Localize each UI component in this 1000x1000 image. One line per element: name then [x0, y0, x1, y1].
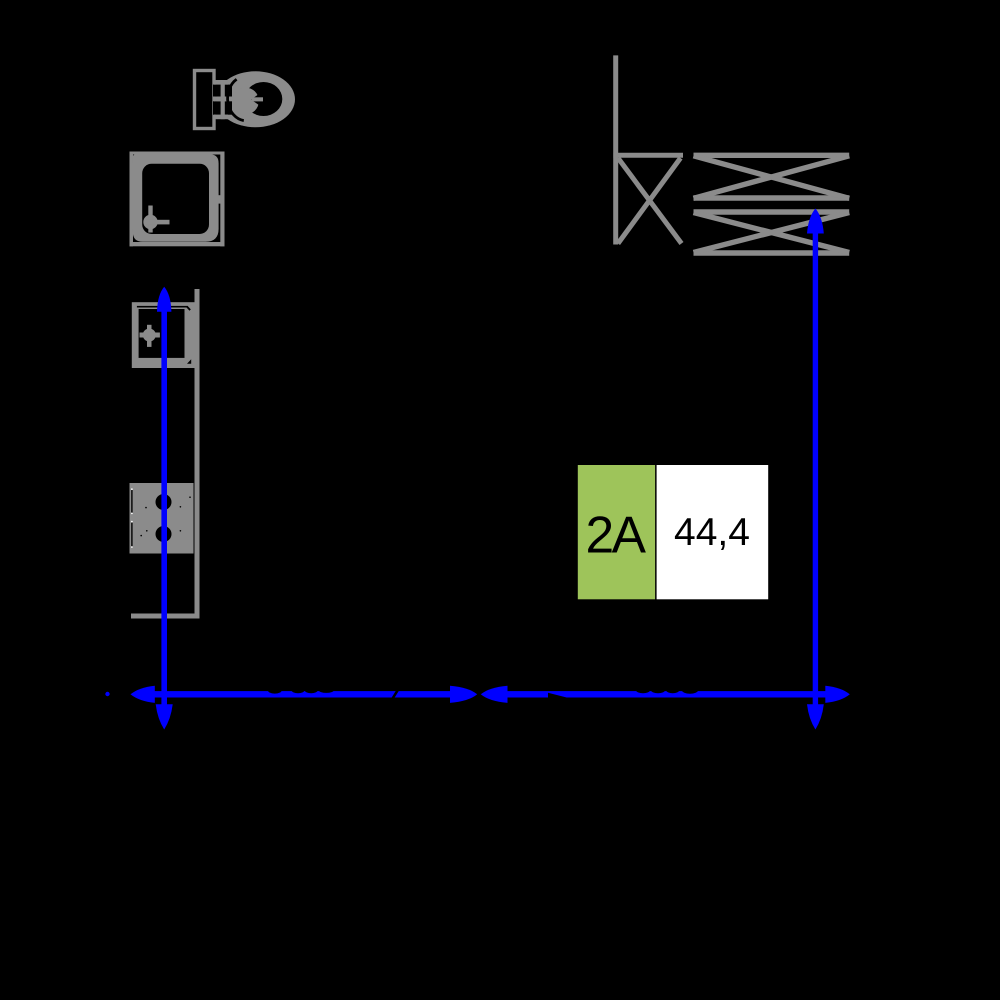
toilet seat hinge	[214, 80, 228, 119]
toilet water spot	[232, 88, 263, 115]
dimension text occlusion 2	[548, 687, 698, 699]
wardrobe top	[694, 155, 850, 198]
burner dots	[140, 496, 190, 536]
shower basin	[142, 164, 209, 234]
stove left edge line	[131, 490, 132, 514]
left segment	[150, 691, 453, 697]
arrow up	[157, 287, 171, 312]
kitchen counter	[131, 289, 197, 616]
chair symbol	[613, 55, 683, 244]
arrow down	[156, 704, 173, 729]
burner 2	[156, 526, 172, 542]
sink corner chamfer	[187, 359, 191, 364]
dimension right vertical	[807, 209, 824, 730]
toilet	[195, 71, 296, 129]
stove	[130, 483, 194, 554]
shower tray	[130, 152, 225, 247]
arrow up	[807, 209, 824, 234]
sink basin	[139, 309, 185, 358]
apartment label	[578, 465, 768, 599]
shower frame	[130, 152, 225, 247]
dimension horizontal	[105, 686, 850, 703]
toilet basin arc	[228, 79, 244, 120]
label green box	[578, 465, 655, 599]
dimension left vertical	[156, 287, 173, 730]
end dot	[105, 692, 109, 696]
toilet basin opening	[245, 82, 283, 116]
arrow down	[807, 704, 824, 729]
toilet bowl	[216, 71, 295, 127]
door bridge	[212, 195, 222, 203]
svg-text:44,4: 44,4	[674, 511, 750, 554]
toilet bowl left gaps	[213, 85, 232, 115]
shower rim	[133, 154, 219, 242]
svg-text:2A: 2A	[586, 506, 647, 564]
sink top slit	[137, 306, 188, 308]
arrow left end	[131, 686, 155, 703]
wardrobe bottom	[694, 212, 850, 253]
arrow mid right	[450, 686, 477, 703]
burner 1	[156, 494, 172, 510]
label white box	[657, 465, 769, 599]
dimension text occlusion 1	[268, 687, 400, 699]
shower drain	[143, 206, 169, 233]
sink	[132, 302, 196, 368]
right segment	[505, 691, 827, 697]
arrow mid left	[481, 686, 508, 703]
arrow right end	[825, 686, 850, 703]
toilet tank	[195, 71, 215, 129]
sink faucet	[140, 325, 160, 347]
